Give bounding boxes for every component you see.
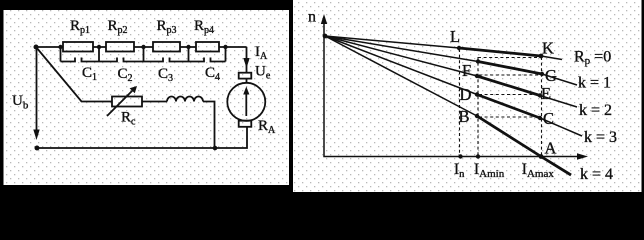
- svg-text:L: L: [450, 27, 460, 46]
- svg-text:k = 4: k = 4: [580, 166, 613, 183]
- svg-text:K: K: [542, 39, 554, 58]
- svg-text:C: C: [543, 109, 554, 128]
- svg-text:A: A: [545, 139, 557, 158]
- svg-text:B: B: [459, 107, 470, 126]
- svg-text:G: G: [545, 66, 557, 85]
- svg-text:k = 1: k = 1: [578, 75, 611, 92]
- svg-text:F: F: [462, 61, 471, 80]
- svg-text:n: n: [308, 9, 316, 26]
- svg-text:D: D: [460, 85, 472, 104]
- svg-text:k = 2: k = 2: [579, 102, 612, 119]
- svg-text:Rp =0: Rp =0: [574, 49, 611, 68]
- svg-text:k = 3: k = 3: [584, 129, 617, 146]
- svg-text:E: E: [541, 84, 551, 103]
